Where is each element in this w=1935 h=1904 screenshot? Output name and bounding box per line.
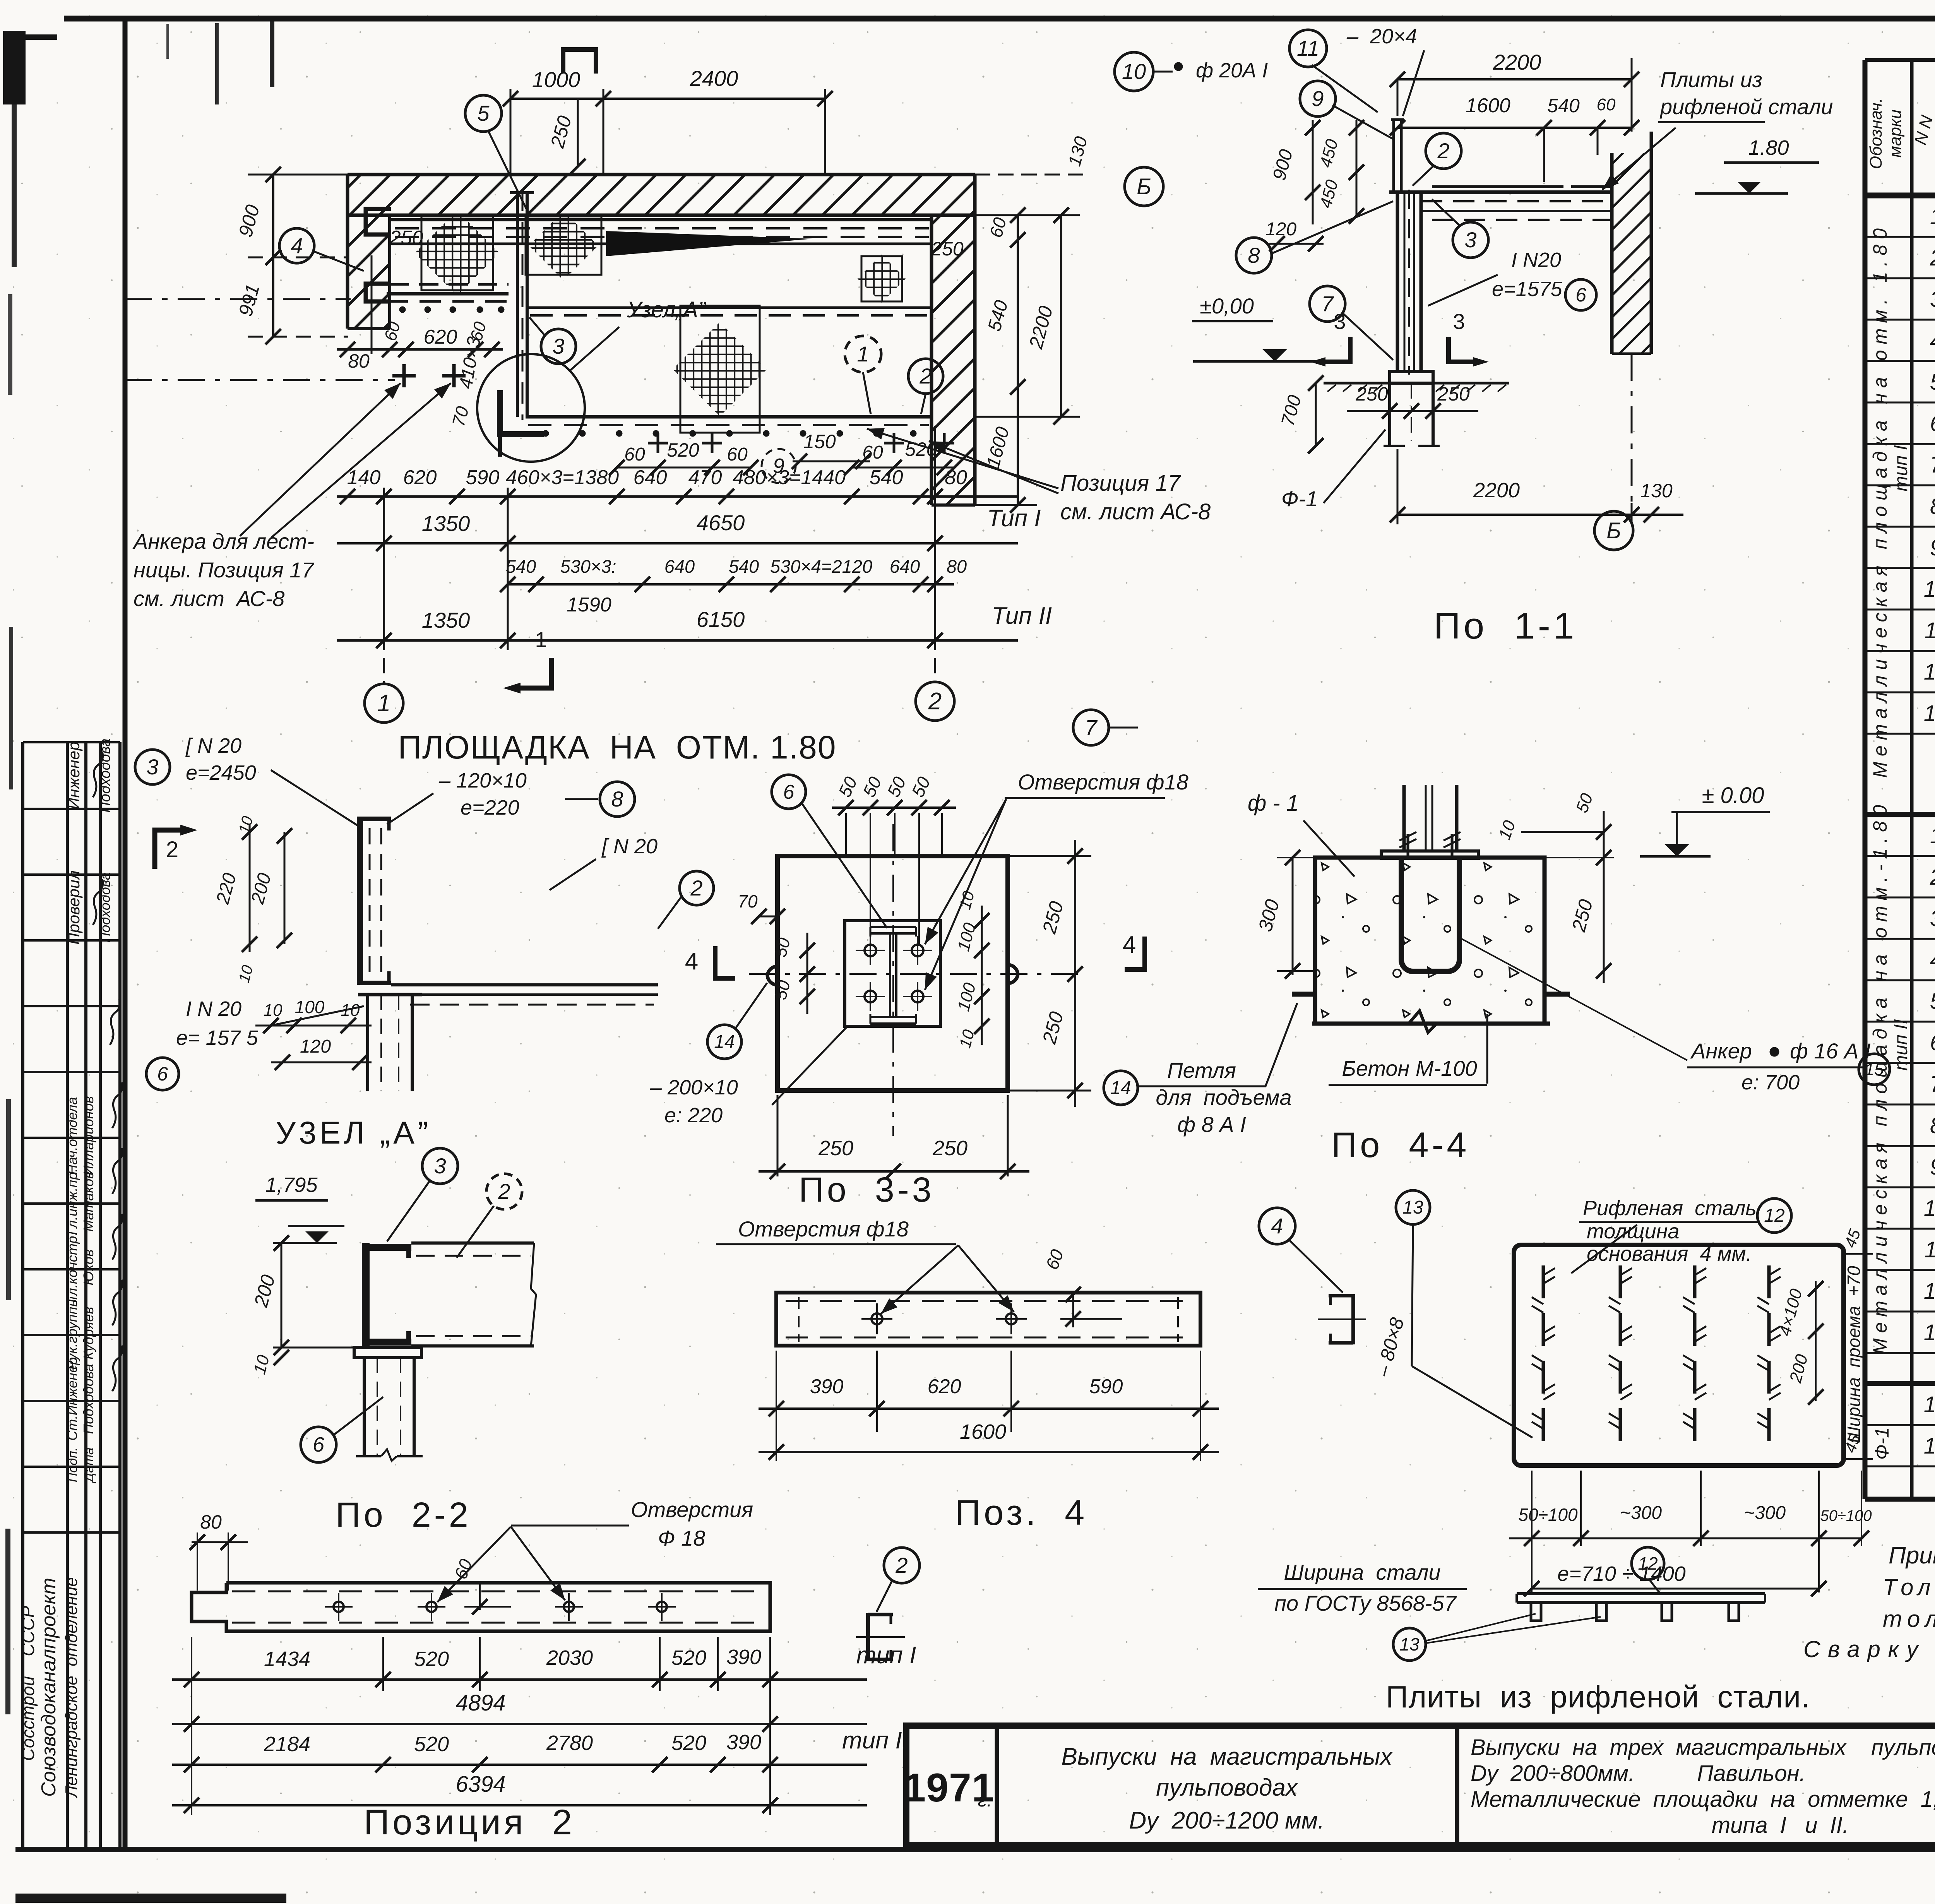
svg-text:15: 15 xyxy=(1924,1433,1935,1459)
svg-text:Нач.отдела: Нач.отдела xyxy=(64,1097,80,1175)
svg-text:Союзводоканалпроект: Союзводоканалпроект xyxy=(38,1578,60,1797)
svg-text:540: 540 xyxy=(729,556,759,577)
svg-text:390: 390 xyxy=(726,1645,761,1669)
svg-text:Ленинградское отделение: Ленинградское отделение xyxy=(62,1577,81,1798)
svg-text:Сосстрой СССР: Сосстрой СССР xyxy=(18,1606,38,1761)
svg-text:2: 2 xyxy=(1930,865,1935,890)
svg-text:e: 700: e: 700 xyxy=(1741,1071,1800,1094)
svg-text:– 200×10: – 200×10 xyxy=(650,1076,738,1099)
svg-text:e=1575: e=1575 xyxy=(1492,277,1563,301)
svg-text:8: 8 xyxy=(1930,494,1935,519)
svg-text:Выпуски на магистральных: Выпуски на магистральных xyxy=(1062,1743,1393,1770)
svg-text:5: 5 xyxy=(1930,370,1935,395)
svg-text:530×3:: 530×3: xyxy=(560,556,616,577)
svg-text:520: 520 xyxy=(667,439,699,461)
svg-text:60: 60 xyxy=(1597,95,1616,114)
svg-text:типа I и II.: типа I и II. xyxy=(1712,1813,1849,1838)
svg-text:1: 1 xyxy=(377,690,390,717)
svg-text:Подходова: Подходова xyxy=(97,872,113,943)
svg-text:590: 590 xyxy=(1089,1375,1123,1398)
svg-text:520: 520 xyxy=(671,1646,706,1669)
svg-text:Плиты из рифленой стали.: Плиты из рифленой стали. xyxy=(1386,1680,1810,1714)
svg-text:640: 640 xyxy=(664,556,695,577)
svg-text:тип I: тип I xyxy=(856,1642,916,1669)
svg-text:520: 520 xyxy=(671,1731,706,1755)
svg-text:рифленой стали: рифленой стали xyxy=(1659,94,1833,119)
svg-text:6: 6 xyxy=(1930,1030,1935,1055)
svg-text:8: 8 xyxy=(1248,243,1260,267)
svg-text:13: 13 xyxy=(1924,1320,1935,1345)
svg-text:I N 20: I N 20 xyxy=(186,997,241,1020)
svg-text:2030: 2030 xyxy=(546,1646,593,1669)
svg-text:Узел„А”: Узел„А” xyxy=(627,297,707,322)
svg-text:Поз. 4: Поз. 4 xyxy=(955,1493,1087,1532)
svg-text:13: 13 xyxy=(1402,1197,1423,1218)
svg-text:250: 250 xyxy=(932,1137,967,1160)
svg-text:540: 540 xyxy=(506,556,536,577)
svg-text:Тип II: Тип II xyxy=(991,603,1052,629)
svg-text:ф 20А I: ф 20А I xyxy=(1196,59,1268,82)
svg-text:4: 4 xyxy=(291,233,303,258)
svg-text:Тип I: Тип I xyxy=(987,505,1041,532)
svg-text:9: 9 xyxy=(1312,86,1324,111)
svg-text:2184: 2184 xyxy=(264,1733,310,1756)
svg-text:14: 14 xyxy=(714,1032,735,1052)
svg-text:Ф-1: Ф-1 xyxy=(1281,486,1318,511)
svg-text:120: 120 xyxy=(300,1036,331,1057)
svg-text:2780: 2780 xyxy=(546,1731,593,1755)
svg-text:4: 4 xyxy=(1123,931,1136,958)
svg-text:4: 4 xyxy=(1930,947,1935,973)
svg-text:1000: 1000 xyxy=(532,67,580,92)
svg-text:1350: 1350 xyxy=(422,511,470,536)
svg-text:~300: ~300 xyxy=(1620,1503,1662,1523)
svg-text:Ф 18: Ф 18 xyxy=(658,1526,705,1550)
svg-text:По 4-4: По 4-4 xyxy=(1331,1125,1469,1165)
svg-text:толщина: толщина xyxy=(1587,1220,1679,1243)
svg-text:7: 7 xyxy=(1085,715,1098,740)
svg-text:6: 6 xyxy=(313,1433,325,1456)
svg-text:520: 520 xyxy=(414,1647,449,1671)
svg-text:470: 470 xyxy=(688,466,722,489)
svg-text:по ГОСТу 8568-57: по ГОСТу 8568-57 xyxy=(1274,1591,1457,1615)
svg-text:11: 11 xyxy=(1297,36,1319,60)
svg-text:1600: 1600 xyxy=(1466,94,1510,117)
svg-text:250: 250 xyxy=(1437,383,1470,405)
svg-text:5: 5 xyxy=(477,101,490,125)
svg-text:10: 10 xyxy=(1122,59,1146,84)
svg-text:г.: г. xyxy=(978,1790,992,1811)
svg-text:3: 3 xyxy=(434,1154,446,1178)
svg-text:Дата: Дата xyxy=(82,1447,96,1484)
svg-text:6394: 6394 xyxy=(455,1772,505,1797)
svg-text:50÷100: 50÷100 xyxy=(1820,1507,1872,1524)
svg-text:460×3=1380: 460×3=1380 xyxy=(506,466,619,489)
svg-text:Выпуски на трех магистральн: Выпуски на трех магистральных пульповода… xyxy=(1471,1735,1935,1760)
svg-text:Б: Б xyxy=(1606,518,1621,543)
svg-text:Матаков: Матаков xyxy=(80,1171,96,1232)
svg-text:50÷100: 50÷100 xyxy=(1518,1505,1578,1525)
svg-text:620: 620 xyxy=(928,1375,961,1398)
svg-text:4650: 4650 xyxy=(697,510,745,535)
svg-text:пульповодах: пульповодах xyxy=(1156,1774,1298,1801)
svg-text:e=2450: e=2450 xyxy=(186,761,256,784)
svg-text:1: 1 xyxy=(857,342,869,366)
svg-text:Ширина проема +70: Ширина проема +70 xyxy=(1844,1266,1864,1443)
svg-text:Подходова: Подходова xyxy=(97,738,113,813)
svg-text:Бетон М-100: Бетон М-100 xyxy=(1342,1056,1477,1080)
svg-text:2: 2 xyxy=(498,1179,510,1204)
svg-text:Отверстия ф18: Отверстия ф18 xyxy=(738,1217,909,1241)
svg-text:590: 590 xyxy=(466,466,500,489)
svg-text:2400: 2400 xyxy=(690,66,738,91)
svg-text:1,795: 1,795 xyxy=(265,1173,318,1197)
svg-text:Ф-1: Ф-1 xyxy=(1871,1427,1893,1460)
svg-text:I N20: I N20 xyxy=(1511,248,1561,272)
svg-text:2: 2 xyxy=(166,837,178,862)
svg-text:Рифленая сталь: Рифленая сталь xyxy=(1583,1197,1757,1220)
svg-text:5: 5 xyxy=(1930,989,1935,1014)
svg-text:Толщину сварных швов принят: Толщину сварных швов принять по наименьш… xyxy=(1883,1574,1935,1600)
svg-text:Гл.констр.: Гл.констр. xyxy=(64,1232,80,1303)
svg-text:8: 8 xyxy=(1930,1113,1935,1138)
svg-text:Кудряев: Кудряев xyxy=(80,1307,96,1360)
svg-text:2: 2 xyxy=(1437,139,1449,163)
svg-text:– 20×4: – 20×4 xyxy=(1346,25,1417,48)
svg-text:7: 7 xyxy=(1930,452,1935,478)
svg-text:Dy 200÷800мм. Павиль: Dy 200÷800мм. Павильон. xyxy=(1471,1761,1806,1786)
svg-text:10: 10 xyxy=(1924,1196,1935,1221)
svg-text:см. лист АС-8: см. лист АС-8 xyxy=(1060,499,1211,524)
svg-text:640: 640 xyxy=(634,466,667,489)
svg-text:По 1-1: По 1-1 xyxy=(1434,605,1577,647)
svg-text:Металлические площадки на о: Металлические площадки на отметке 1,80 xyxy=(1471,1787,1935,1812)
svg-text:Илларионов: Илларионов xyxy=(80,1096,96,1175)
svg-text:12: 12 xyxy=(1764,1205,1784,1226)
svg-text:2: 2 xyxy=(919,364,932,388)
svg-text:4894: 4894 xyxy=(455,1690,505,1716)
svg-text:тип II: тип II xyxy=(1891,1019,1911,1070)
svg-text:60: 60 xyxy=(862,442,883,463)
svg-text:тип I: тип I xyxy=(1891,445,1911,491)
svg-text:1590: 1590 xyxy=(567,594,611,616)
svg-text:3: 3 xyxy=(1930,906,1935,931)
svg-text:6150: 6150 xyxy=(697,607,745,632)
svg-text:4: 4 xyxy=(1271,1214,1283,1238)
svg-text:530×4=2120: 530×4=2120 xyxy=(770,556,872,577)
svg-text:7: 7 xyxy=(1930,1072,1935,1097)
svg-text:250: 250 xyxy=(818,1137,853,1160)
svg-text:Подходова: Подходова xyxy=(80,1364,96,1434)
svg-text:12: 12 xyxy=(1638,1553,1658,1574)
svg-text:250: 250 xyxy=(931,238,964,260)
svg-text:640: 640 xyxy=(890,556,920,577)
svg-text:540: 540 xyxy=(870,466,903,489)
svg-text:Б: Б xyxy=(1137,174,1151,199)
svg-text:10: 10 xyxy=(264,1001,283,1020)
svg-text:11: 11 xyxy=(1925,1237,1935,1262)
svg-text:Юхов: Юхов xyxy=(80,1249,96,1285)
svg-text:9: 9 xyxy=(1930,535,1935,560)
svg-text:13: 13 xyxy=(1399,1634,1420,1654)
svg-text:для подъема: для подъема xyxy=(1156,1085,1291,1110)
svg-text:3: 3 xyxy=(552,334,564,358)
svg-text:80: 80 xyxy=(348,350,370,372)
svg-text:Плиты из: Плиты из xyxy=(1660,67,1762,92)
svg-text:ф 8 А I: ф 8 А I xyxy=(1177,1112,1246,1137)
svg-text:620: 620 xyxy=(424,326,457,348)
svg-text:2: 2 xyxy=(928,688,942,715)
svg-text:3: 3 xyxy=(1930,287,1935,312)
svg-text:3: 3 xyxy=(1453,309,1465,334)
svg-text:60: 60 xyxy=(624,444,645,465)
svg-text:6: 6 xyxy=(157,1063,168,1085)
svg-text:13: 13 xyxy=(1924,701,1935,726)
svg-text:1434: 1434 xyxy=(264,1647,310,1671)
svg-text:1600: 1600 xyxy=(960,1420,1006,1443)
svg-text:10: 10 xyxy=(1924,577,1935,602)
svg-text:ф - 1: ф - 1 xyxy=(1248,791,1299,816)
svg-text:390: 390 xyxy=(726,1731,761,1754)
svg-text:Ст.Инженер: Ст.Инженер xyxy=(64,1357,80,1441)
svg-text:[ N 20: [ N 20 xyxy=(601,835,658,858)
svg-text:100: 100 xyxy=(295,997,325,1017)
svg-text:520: 520 xyxy=(414,1733,449,1756)
svg-text:9: 9 xyxy=(773,454,784,478)
svg-text:7: 7 xyxy=(1321,291,1334,316)
svg-text:– 120×10: – 120×10 xyxy=(438,769,527,792)
svg-text:15: 15 xyxy=(1865,1060,1884,1079)
svg-text:Dy 200÷1200 мм.: Dy 200÷1200 мм. xyxy=(1129,1807,1324,1834)
svg-text:14: 14 xyxy=(1110,1078,1131,1098)
svg-text:130: 130 xyxy=(1640,480,1673,502)
svg-text:Подп.: Подп. xyxy=(65,1447,80,1483)
svg-text:6: 6 xyxy=(1930,411,1935,436)
svg-text:80: 80 xyxy=(947,556,967,577)
svg-text:По 2-2: По 2-2 xyxy=(336,1496,471,1534)
svg-text:По 3-3: По 3-3 xyxy=(799,1171,935,1209)
svg-text:150: 150 xyxy=(803,431,836,452)
svg-text:±0,00: ±0,00 xyxy=(1200,294,1254,318)
svg-text:Ширина стали: Ширина стали xyxy=(1284,1560,1440,1584)
svg-text:2: 2 xyxy=(1930,245,1935,271)
svg-text:8: 8 xyxy=(611,787,623,811)
svg-text:Анкер: Анкер xyxy=(1690,1039,1752,1063)
svg-text:6: 6 xyxy=(783,781,795,803)
svg-text:Проверил: Проверил xyxy=(65,870,83,945)
svg-text:Отверстия: Отверстия xyxy=(631,1497,753,1522)
svg-text:4: 4 xyxy=(685,948,698,975)
svg-text:3: 3 xyxy=(146,755,158,779)
svg-text:3: 3 xyxy=(1464,228,1476,252)
svg-text:ф 16 А I: ф 16 А I xyxy=(1790,1039,1871,1063)
svg-text:250: 250 xyxy=(1355,383,1388,405)
svg-text:± 0.00: ± 0.00 xyxy=(1702,783,1764,808)
svg-text:тип II: тип II xyxy=(842,1727,909,1754)
svg-text:Позиция 17: Позиция 17 xyxy=(1060,471,1182,496)
svg-text:540: 540 xyxy=(1547,95,1580,116)
svg-text:2200: 2200 xyxy=(1473,479,1520,502)
svg-text:11: 11 xyxy=(1925,618,1935,643)
svg-text:[ N 20: [ N 20 xyxy=(185,734,241,757)
svg-text:2200: 2200 xyxy=(1493,50,1541,74)
svg-text:6: 6 xyxy=(1575,284,1586,306)
svg-text:1350: 1350 xyxy=(422,608,470,632)
svg-text:1: 1 xyxy=(535,627,547,652)
svg-text:2: 2 xyxy=(895,1553,908,1577)
svg-text:120: 120 xyxy=(1265,219,1296,240)
svg-text:Обознач.: Обознач. xyxy=(1867,98,1885,169)
svg-text:Гл.инж.пр.: Гл.инж.пр. xyxy=(64,1168,80,1235)
svg-text:80: 80 xyxy=(945,466,967,489)
svg-text:250: 250 xyxy=(389,227,423,249)
svg-text:1: 1 xyxy=(1930,823,1935,848)
svg-text:Примечание.: Примечание. xyxy=(1889,1542,1935,1569)
svg-text:12: 12 xyxy=(1924,659,1935,685)
svg-text:толщине свариваемых элементо: толщине свариваемых элементов. xyxy=(1883,1606,1935,1632)
svg-text:e=220: e=220 xyxy=(461,796,519,819)
svg-text:Анкера для лест-: Анкера для лест- xyxy=(132,529,314,553)
svg-text:Отверстия ф18: Отверстия ф18 xyxy=(1018,770,1188,794)
svg-text:см. лист АС-8: см. лист АС-8 xyxy=(134,586,284,611)
svg-text:60: 60 xyxy=(727,444,748,465)
svg-text:Инженер: Инженер xyxy=(65,741,83,809)
svg-text:ПЛОЩАДКА НА ОТМ. 1.80: ПЛОЩАДКА НА ОТМ. 1.80 xyxy=(398,729,836,765)
svg-text:e: 220: e: 220 xyxy=(664,1104,723,1127)
svg-text:e= 157 5: e= 157 5 xyxy=(176,1026,259,1050)
svg-text:~300: ~300 xyxy=(1744,1503,1786,1523)
svg-text:ницы. Позиция 17: ницы. Позиция 17 xyxy=(134,558,314,582)
svg-text:390: 390 xyxy=(810,1375,844,1398)
svg-text:10: 10 xyxy=(341,1001,360,1020)
svg-text:e=710 ÷ 1400: e=710 ÷ 1400 xyxy=(1557,1562,1685,1586)
svg-text:1: 1 xyxy=(1930,204,1935,229)
svg-text:12: 12 xyxy=(1924,1279,1935,1304)
svg-text:Петля: Петля xyxy=(1167,1058,1236,1082)
svg-text:Позиция 2: Позиция 2 xyxy=(364,1803,575,1842)
svg-text:14: 14 xyxy=(1924,1392,1935,1417)
svg-text:У3ЕЛ „А”: У3ЕЛ „А” xyxy=(276,1115,431,1151)
svg-text:620: 620 xyxy=(403,466,437,489)
svg-text:2: 2 xyxy=(690,876,702,900)
svg-text:70: 70 xyxy=(738,891,758,911)
svg-text:1.80: 1.80 xyxy=(1748,136,1789,159)
svg-text:80: 80 xyxy=(200,1511,222,1533)
svg-text:9: 9 xyxy=(1930,1154,1935,1180)
svg-text:140: 140 xyxy=(347,466,381,489)
svg-text:4: 4 xyxy=(1930,328,1935,353)
svg-text:марки: марки xyxy=(1886,110,1905,158)
